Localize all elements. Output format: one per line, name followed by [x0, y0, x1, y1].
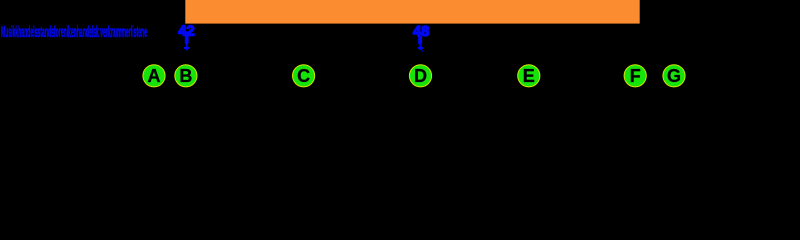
svg-text:F: F [630, 66, 641, 86]
node D [409, 65, 431, 87]
node B [175, 65, 197, 87]
node C [293, 65, 315, 87]
orange bar [185, 0, 639, 24]
node G [663, 65, 685, 87]
svg-text:G: G [667, 66, 681, 86]
svg-text:Musikkhandelsstandsforenikenha: Musikkhandelsstandsforenikenhandelsk ver… [1, 24, 147, 41]
svg-text:B: B [179, 66, 192, 86]
node E [518, 65, 540, 87]
marker 42 [178, 23, 194, 51]
svg-text:E: E [523, 66, 535, 86]
node A [143, 65, 165, 87]
node F [624, 65, 646, 87]
svg-text:C: C [297, 66, 310, 86]
svg-text:D: D [414, 66, 427, 86]
marker 48 [413, 23, 429, 52]
svg-text:A: A [148, 66, 161, 86]
